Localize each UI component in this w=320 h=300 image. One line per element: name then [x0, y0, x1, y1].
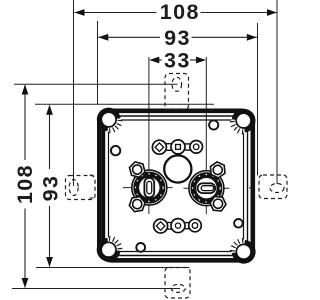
svg-text:33: 33: [164, 49, 191, 73]
svg-text:108: 108: [13, 164, 37, 204]
svg-text:93: 93: [39, 175, 63, 202]
svg-text:93: 93: [164, 26, 191, 50]
svg-text:108: 108: [160, 0, 200, 24]
